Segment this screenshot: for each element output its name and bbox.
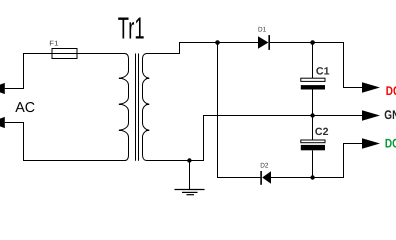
svg-text:Tr1: Tr1 <box>118 12 145 46</box>
svg-text:D1: D1 <box>258 26 266 33</box>
svg-text:AC: AC <box>15 100 35 116</box>
svg-text:GND: GND <box>384 108 396 122</box>
svg-text:DC+: DC+ <box>386 84 396 98</box>
svg-text:C1: C1 <box>316 65 330 77</box>
svg-text:D2: D2 <box>260 163 268 170</box>
svg-text:F1: F1 <box>49 40 58 47</box>
svg-text:C2: C2 <box>315 126 329 138</box>
svg-text:DC-: DC- <box>385 137 396 151</box>
